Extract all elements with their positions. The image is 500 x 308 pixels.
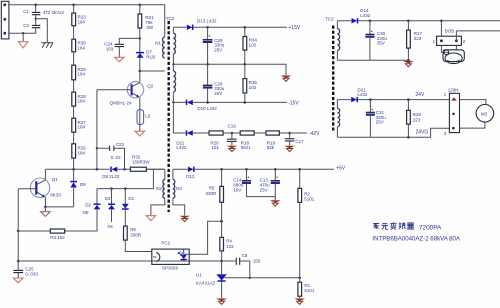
wire C1C2 mid to chassis <box>35 18 37 20</box>
svg-text:N1: N1 <box>155 40 161 45</box>
core TC2 right <box>332 26 334 131</box>
wire fan return <box>337 59 408 61</box>
+15V rail <box>173 26 287 28</box>
char 元 <box>382 224 389 230</box>
capacitor C29 <box>206 26 209 29</box>
resistor R6 <box>124 226 128 240</box>
shunt regulator U1 KA431AZ <box>221 261 223 274</box>
svg-text:L432: L432 <box>360 13 371 18</box>
motor M3 <box>460 100 486 105</box>
ground R1 <box>294 299 305 302</box>
svg-text:3: 3 <box>444 131 447 136</box>
svg-text:+5V: +5V <box>336 165 346 171</box>
resistor R35 <box>243 79 247 93</box>
svg-text:25V: 25V <box>214 91 222 96</box>
svg-text:184: 184 <box>78 150 86 155</box>
svg-text:D9: D9 <box>80 182 86 187</box>
fan rail <box>337 20 500 22</box>
svg-text:Nc: Nc <box>108 224 114 229</box>
svg-text:BOB: BOB <box>445 29 455 34</box>
svg-text:330R: 330R <box>206 191 218 196</box>
svg-text:155: 155 <box>253 259 261 264</box>
svg-text:NE: NE <box>83 210 89 215</box>
svg-text:C19: C19 <box>228 124 237 129</box>
svg-text:184: 184 <box>78 125 86 130</box>
svg-text:7200PA: 7200PA <box>419 224 442 231</box>
+5V rail <box>173 168 334 170</box>
resistor R29 <box>72 65 76 80</box>
diode D14 <box>352 18 358 23</box>
svg-text:N3: N3 <box>176 186 182 191</box>
svg-text:R3 152: R3 152 <box>50 235 65 240</box>
fan FAN1 <box>440 45 442 53</box>
svg-text:KA431AZ: KA431AZ <box>196 281 216 286</box>
svg-text:INTPB6BA0040AZ-2 68kVA 80A: INTPB6BA0040AZ-2 68kVA 80A <box>372 235 461 242</box>
ground connector pin3 <box>22 32 24 34</box>
svg-text:N2: N2 <box>156 186 162 191</box>
svg-text:PC1: PC1 <box>161 241 170 246</box>
resistor R18 <box>240 131 254 135</box>
svg-text:101: 101 <box>211 145 219 150</box>
svg-text:25V: 25V <box>260 187 268 192</box>
ground N3 <box>179 216 190 219</box>
diode D11 <box>186 130 188 135</box>
diode D13 <box>187 25 193 30</box>
RIGHT TC2 <box>325 8 500 138</box>
svg-text:C23: C23 <box>116 142 125 147</box>
svg-text:D10 L432: D10 L432 <box>197 106 217 111</box>
svg-text:1: 1 <box>433 39 436 44</box>
svg-text:120N: 120N <box>448 87 459 92</box>
svg-text:150R3W: 150R3W <box>132 159 150 164</box>
char 东 <box>373 224 379 230</box>
connector BOB <box>440 20 443 23</box>
svg-text:0. 033: 0. 033 <box>25 272 38 277</box>
svg-text:QM5HL-24: QM5HL-24 <box>110 101 133 106</box>
svg-text:RU2: RU2 <box>146 54 155 59</box>
inductor L6 <box>137 110 144 125</box>
resistor R26 <box>72 144 76 158</box>
wire BOB pin2 out <box>456 31 500 41</box>
winding N3 <box>172 169 174 179</box>
capacitor C30 <box>369 20 372 23</box>
svg-text:0. 22: 0. 22 <box>111 155 122 160</box>
wire U1 ref <box>224 277 299 279</box>
chassis ground <box>41 43 53 48</box>
capacitor C19 <box>231 132 234 135</box>
svg-text:24VG: 24VG <box>416 129 429 135</box>
PRIMARY-LEFT <box>1 1 165 283</box>
wire 24VG <box>337 128 449 137</box>
svg-text:C2: C2 <box>23 23 29 28</box>
ground R17 <box>407 59 410 62</box>
resistor R21 <box>139 5 141 82</box>
svg-text:24V: 24V <box>415 92 425 98</box>
svg-text:D3: D3 <box>105 196 111 201</box>
node primary bottom <box>139 70 142 73</box>
svg-text:35V: 35V <box>377 41 385 46</box>
diode D10 <box>186 100 188 106</box>
svg-text:L432: L432 <box>176 145 187 150</box>
zener D9 <box>73 169 75 207</box>
ground center tap <box>281 76 292 79</box>
resistor R1 <box>298 282 302 296</box>
node chain top <box>72 4 75 7</box>
ground U1 <box>216 299 227 302</box>
ground C13 <box>270 200 281 203</box>
winding N1 primary <box>163 37 165 58</box>
svg-text:U1: U1 <box>196 272 202 277</box>
-15V rail <box>173 101 287 103</box>
wire Q2 base <box>97 89 132 91</box>
ground N2 <box>146 216 156 221</box>
wire LED anode <box>184 221 222 254</box>
svg-text:-15V: -15V <box>288 101 299 107</box>
resistor R5 <box>220 168 223 171</box>
svg-text:16V: 16V <box>233 187 241 192</box>
connector 120N <box>449 93 459 132</box>
winding 24V lower <box>336 100 338 109</box>
svg-text:D1: D1 <box>128 196 134 201</box>
svg-text:SP3058: SP3058 <box>162 266 179 271</box>
diode D8 <box>110 167 112 172</box>
svg-text:D8 2L32: D8 2L32 <box>102 174 120 179</box>
ground C24 <box>115 57 125 61</box>
resistor R23 <box>72 13 76 26</box>
capacitor C24 <box>139 37 141 39</box>
resistor R34 <box>244 27 246 64</box>
svg-text:2: 2 <box>463 39 466 44</box>
diode D12 <box>188 167 194 172</box>
capacitor C31 <box>369 98 372 101</box>
capacitor C23 <box>96 147 98 149</box>
wire center tap <box>173 64 286 75</box>
wire pin3 <box>9 32 36 34</box>
svg-text:L432: L432 <box>357 92 368 97</box>
svg-text:M3: M3 <box>481 111 488 116</box>
svg-text:184: 184 <box>78 19 86 24</box>
winding N2 <box>164 169 166 179</box>
svg-text:223: 223 <box>414 36 422 41</box>
diode D2 <box>96 189 98 231</box>
resistor R3 <box>17 230 20 233</box>
diode D1 <box>124 187 127 190</box>
svg-text:102: 102 <box>249 85 257 90</box>
resistor R26b <box>407 98 410 101</box>
wire Q1 base down <box>17 189 19 261</box>
svg-text:8K33: 8K33 <box>50 193 61 198</box>
capacitor C17 <box>288 132 291 135</box>
svg-text:D13 L432: D13 L432 <box>197 18 217 23</box>
ground Q1 emitter <box>44 206 47 209</box>
svg-text:L6: L6 <box>145 113 151 118</box>
ground L6 <box>135 131 145 136</box>
svg-text:82k: 82k <box>267 145 275 150</box>
svg-text:TC2: TC2 <box>325 16 334 21</box>
svg-text:+15V: +15V <box>288 25 300 31</box>
svg-text:184: 184 <box>78 72 86 77</box>
capacitor C8 <box>222 261 250 278</box>
svg-text:102: 102 <box>226 244 234 249</box>
transistor Q2 <box>127 82 143 98</box>
resistor R17 <box>407 20 410 23</box>
svg-text:TC2: TC2 <box>166 16 175 21</box>
capacitor C2 <box>32 25 40 27</box>
node R5 R4 <box>220 220 223 223</box>
svg-text:25V: 25V <box>376 120 384 125</box>
resistor R28 <box>72 92 76 106</box>
svg-text:Q2: Q2 <box>147 84 154 89</box>
svg-text:103: 103 <box>106 46 114 51</box>
resistor R4 <box>220 237 224 251</box>
char 器 <box>407 223 414 229</box>
TRANSFORMER <box>146 16 190 222</box>
svg-text:D2: D2 <box>85 203 91 208</box>
wire chain <box>73 5 75 170</box>
capacitor C28 <box>207 64 209 85</box>
SECONDARY RAILS <box>173 18 346 237</box>
wire emitter to D9 <box>45 206 73 208</box>
svg-text:5621: 5621 <box>241 145 252 150</box>
svg-text:330R: 330R <box>130 232 142 237</box>
svg-text:223: 223 <box>413 117 421 122</box>
main rail y169 <box>45 168 164 170</box>
resistor R30 <box>72 39 76 52</box>
capacitor C14 <box>245 168 248 171</box>
winding secondary upper <box>172 27 174 33</box>
resistor R2 <box>298 168 301 171</box>
svg-text:5101: 5101 <box>304 288 315 293</box>
resistor R19 <box>266 131 279 135</box>
TITLE TEXT <box>372 222 461 242</box>
24V rail <box>337 99 449 101</box>
wire rail to N2 top <box>146 168 164 170</box>
svg-text:184: 184 <box>78 46 86 51</box>
char 变 <box>390 222 396 229</box>
phototransistor PC1 <box>156 253 160 262</box>
diode D3 <box>110 187 113 190</box>
winding secondary lower <box>173 71 175 92</box>
svg-text:Q1: Q1 <box>52 177 59 182</box>
wire clamp to diode row <box>97 169 153 188</box>
resistor R32 <box>130 167 146 171</box>
capacitor C13 <box>274 168 277 171</box>
ground C25 <box>13 278 23 283</box>
wire top bus <box>9 5 165 37</box>
optocoupler PC1 <box>152 249 189 264</box>
resistor R27 <box>72 118 76 132</box>
svg-text:5101: 5101 <box>304 197 315 202</box>
svg-text:D12: D12 <box>186 174 195 179</box>
svg-text:1: 1 <box>444 91 447 96</box>
svg-text:102: 102 <box>249 42 257 47</box>
capacitor C25 <box>17 260 20 263</box>
winding 24V aux upper <box>336 21 338 29</box>
svg-text:3W: 3W <box>146 25 154 30</box>
svg-text:25V: 25V <box>214 47 222 52</box>
diode D21 <box>351 97 357 102</box>
connector CN1 <box>1 1 9 39</box>
svg-text:184: 184 <box>78 99 86 104</box>
svg-text:-42V: -42V <box>309 131 320 137</box>
svg-text:C1: C1 <box>23 9 29 14</box>
resistor R20 <box>209 131 223 135</box>
core TC2 main <box>167 21 169 212</box>
svg-text:C17: C17 <box>295 139 304 144</box>
wire D11 feed <box>172 101 174 103</box>
LED PC1 <box>183 250 185 255</box>
capacitor C1 <box>35 5 37 12</box>
transistor Q1 <box>30 178 49 197</box>
FEEDBACK <box>18 168 315 304</box>
node KA431 top <box>220 260 223 263</box>
node center tap <box>172 63 174 65</box>
svg-text:C8: C8 <box>242 253 248 258</box>
bottom bus <box>18 260 221 262</box>
char 频 <box>399 223 406 230</box>
svg-text:472 2kVx2: 472 2kVx2 <box>43 10 65 15</box>
diode D7 <box>136 52 144 54</box>
